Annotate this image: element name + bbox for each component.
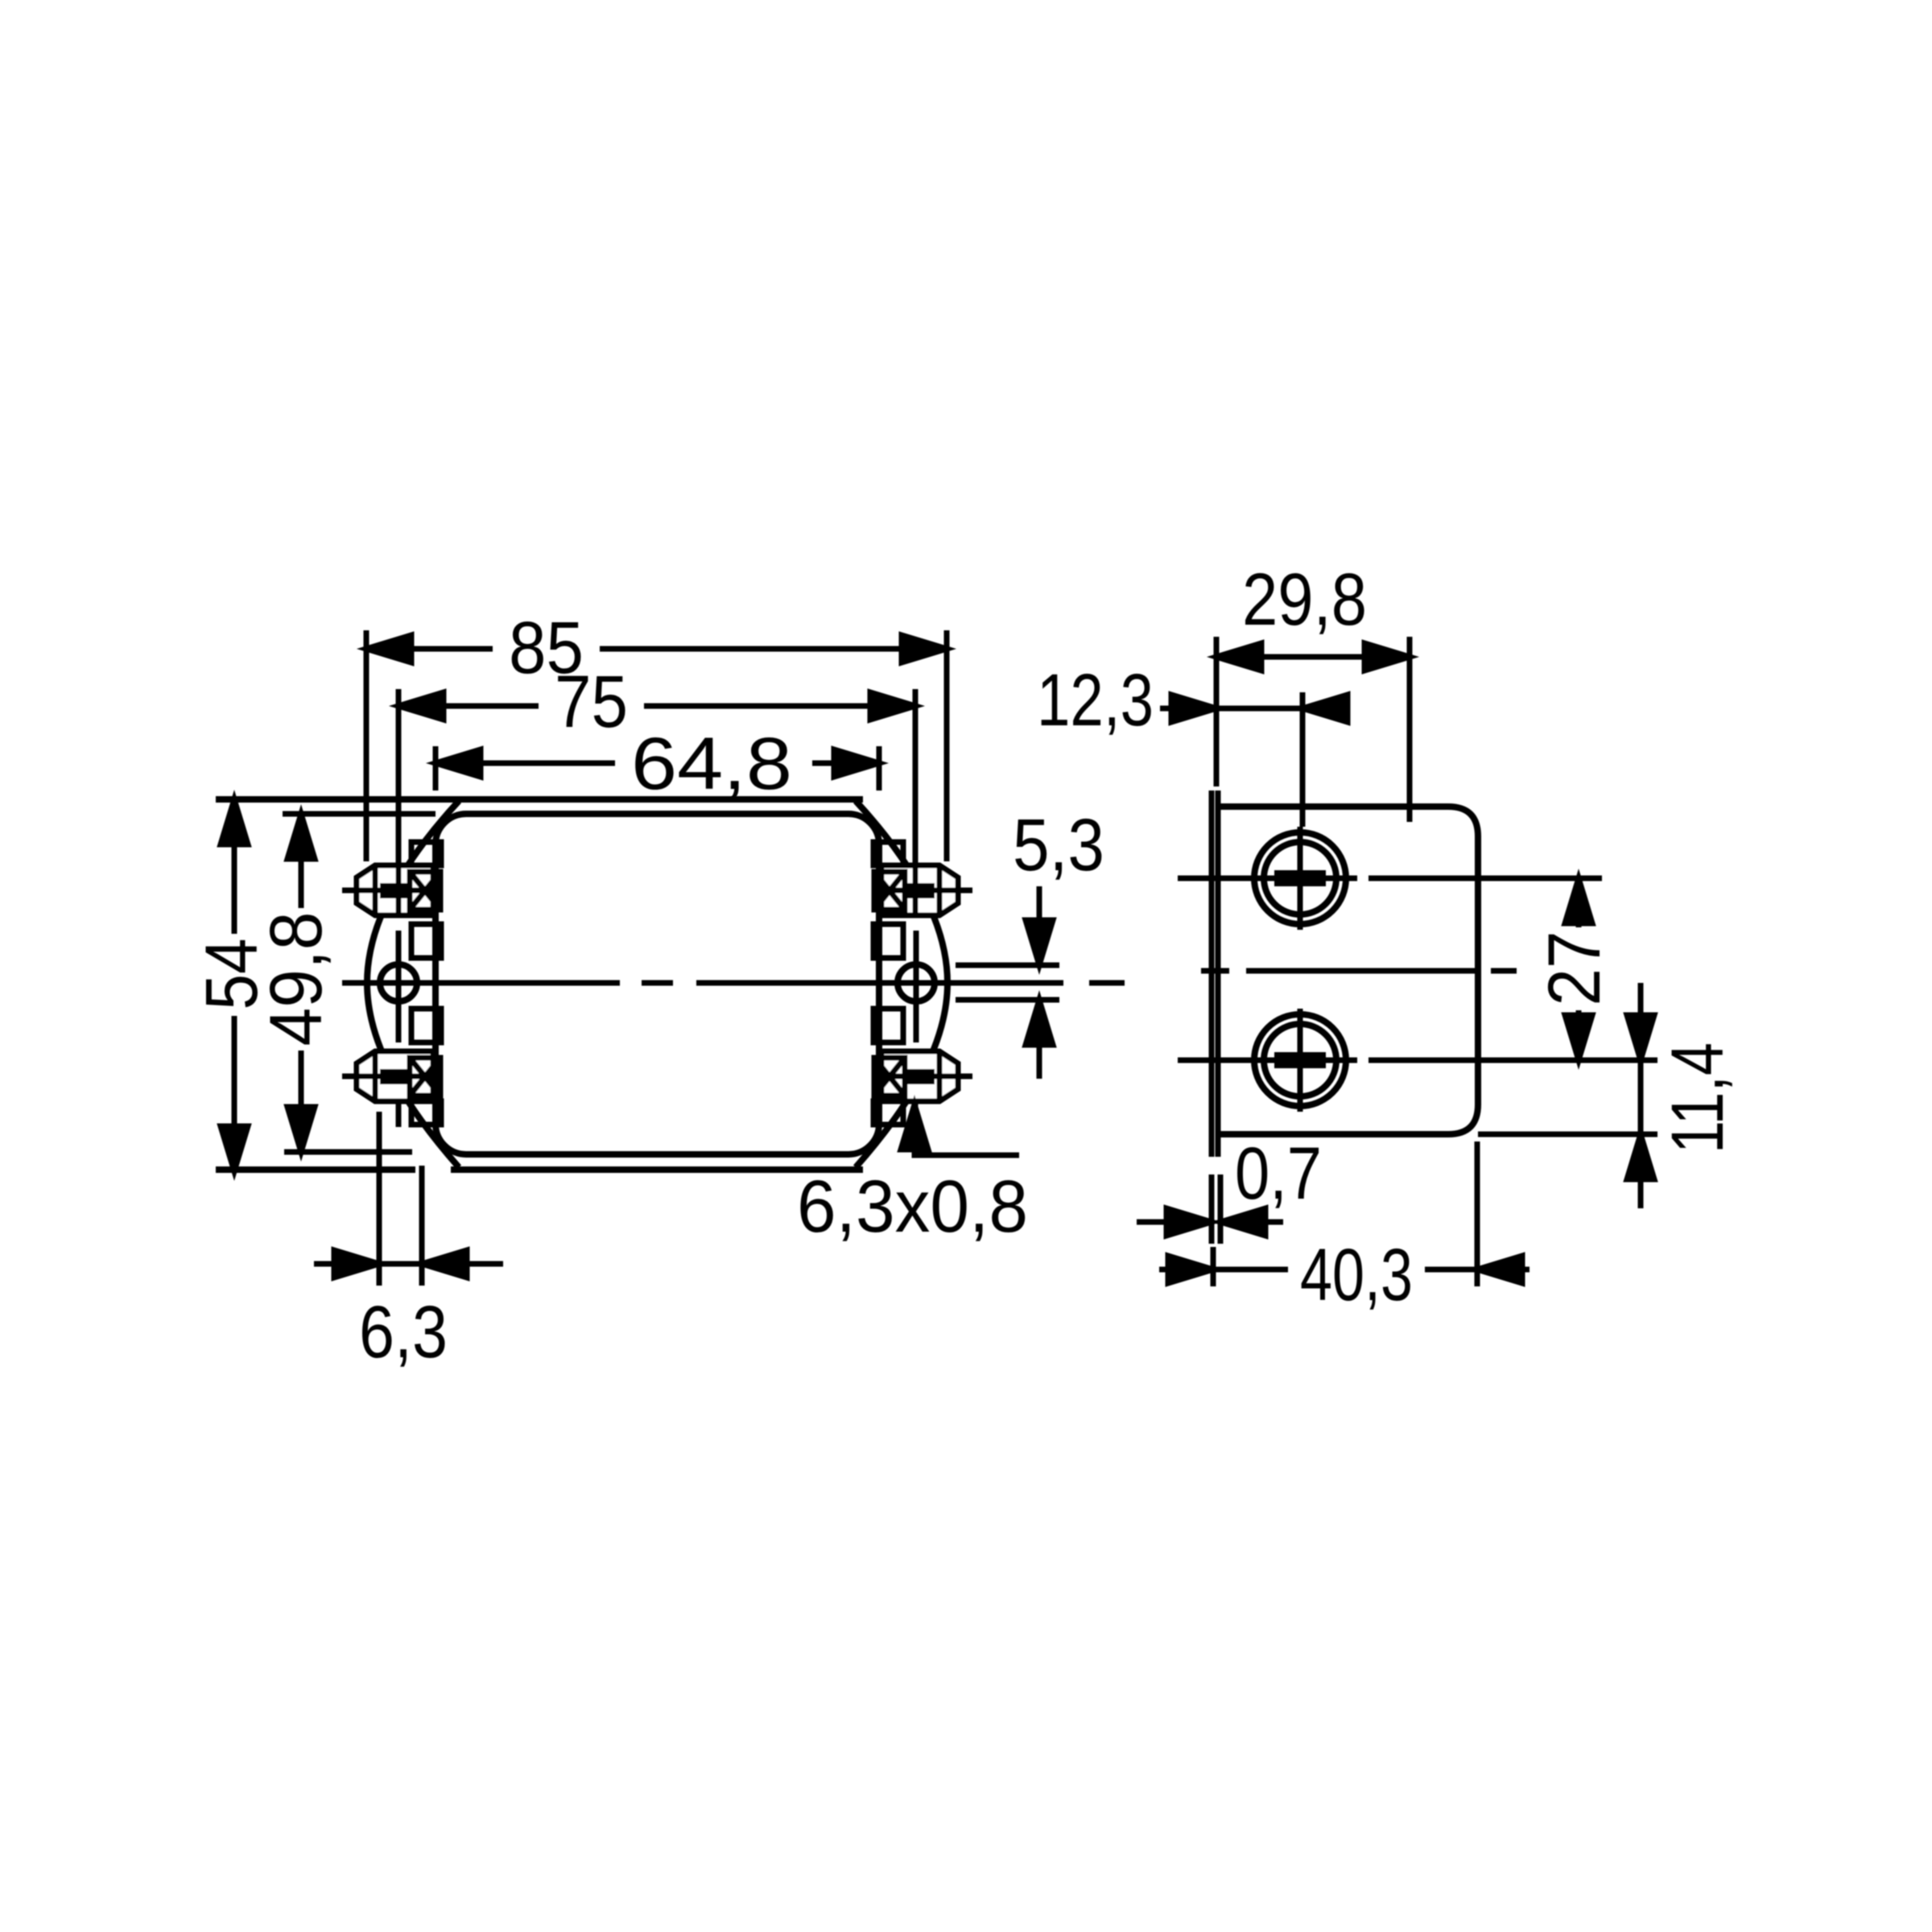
svg-text:6,3: 6,3 <box>359 1291 448 1373</box>
svg-text:12,3: 12,3 <box>1037 659 1154 741</box>
svg-text:6,3x0,8: 6,3x0,8 <box>797 1166 1028 1248</box>
svg-text:0,7: 0,7 <box>1235 1133 1322 1215</box>
svg-text:75: 75 <box>555 661 628 743</box>
svg-text:64,8: 64,8 <box>631 723 792 805</box>
svg-text:27: 27 <box>1534 931 1616 1006</box>
svg-text:29,8: 29,8 <box>1242 559 1367 641</box>
svg-text:5,3: 5,3 <box>1013 804 1104 886</box>
svg-text:40,3: 40,3 <box>1300 1234 1413 1316</box>
svg-text:11,4: 11,4 <box>1657 1042 1739 1154</box>
svg-text:49,8: 49,8 <box>255 912 337 1046</box>
